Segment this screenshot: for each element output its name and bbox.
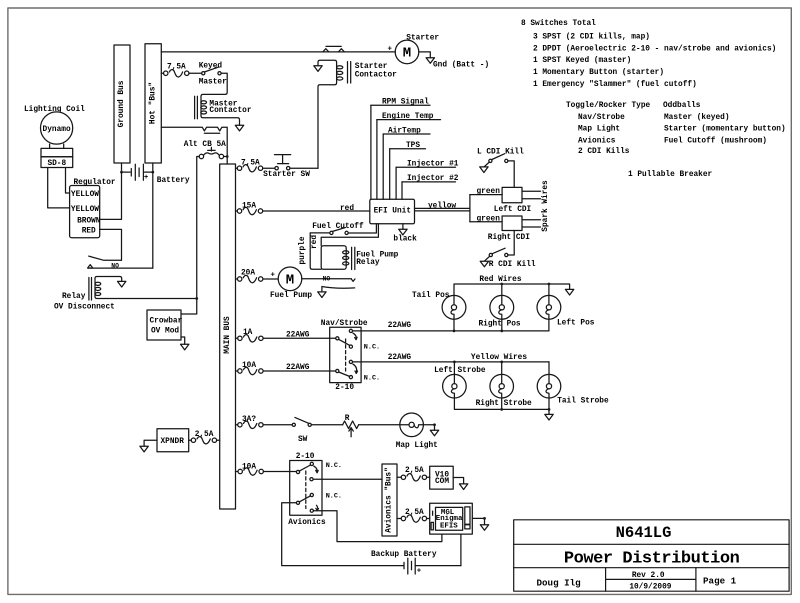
svg-text:SW: SW [298,436,308,444]
svg-text:N.C.: N.C. [326,493,342,501]
svg-text:Tail Pos: Tail Pos [412,292,450,300]
wire map lamp to ground [423,423,436,430]
wire avionics to bus [313,478,382,480]
ground starter contactor [314,66,322,72]
svg-text:red: red [311,235,319,249]
svg-text:1 Pullable Breaker: 1 Pullable Breaker [628,171,713,179]
notes pullable breaker [628,171,713,179]
svg-text:Page 1: Page 1 [703,576,737,587]
ground XPNDR [140,446,148,452]
svg-text:Engine Temp: Engine Temp [382,113,434,121]
right CDI box [488,216,530,242]
wire pump to NO contact [302,276,352,283]
svg-text:Regulator: Regulator [74,179,116,187]
EFI sensor line Injector1 [396,161,459,200]
wire green upper [470,188,502,196]
ground master contactor [235,125,243,131]
svg-text:2-10: 2-10 [296,453,315,461]
EFI sensor line EngineTemp [377,113,441,199]
svg-text:M: M [286,273,294,289]
avionics pole1 common [296,465,310,474]
EFI sensor line AirTemp [383,127,430,199]
svg-text:Alt CB 5A: Alt CB 5A [184,141,226,149]
wire pos lamp feeds [454,319,549,331]
ground bus [114,45,130,163]
node battery minus [120,171,123,174]
title date [629,583,671,591]
title block frame [514,520,789,591]
svg-text:Right Strobe: Right Strobe [476,400,532,408]
stub main bus efi [236,210,238,212]
title author [537,577,581,588]
notes toggle rocker table [566,102,786,156]
svg-text:22AWG: 22AWG [388,354,412,362]
svg-text:Fuel Pump: Fuel Pump [270,292,312,300]
svg-text:Crowbar: Crowbar [150,317,183,325]
ground EFIS [480,525,488,531]
stub main bus strobe [236,370,238,372]
svg-text:BROWN: BROWN [77,218,101,226]
ground map light [430,430,438,436]
svg-text:Avionics: Avionics [288,519,326,527]
node pos lamp2 feed [500,330,503,333]
wire 10A to strobe switch [263,364,336,372]
wire SD-8 to regulator yellow2 [48,168,70,208]
ground fuel pump contact [318,292,326,298]
svg-text:AirTemp: AirTemp [388,127,421,135]
node strobe lamp2 feed [500,361,503,364]
svg-text:Master (keyed): Master (keyed) [664,114,730,122]
svg-text:N.C.: N.C. [326,462,342,470]
wire L kill to left CDI [508,161,514,188]
svg-text:2-10: 2-10 [335,384,354,392]
svg-text:2,5A: 2,5A [405,467,424,475]
wire keyed switch to contactor coil [201,73,240,125]
svg-text:Backup Battery: Backup Battery [371,551,437,559]
svg-text:Toggle/Rocker Type: Toggle/Rocker Type [566,102,651,110]
svg-text:SD-8: SD-8 [47,160,66,168]
svg-text:8 Switches Total: 8 Switches Total [521,20,596,28]
title page [703,576,737,587]
lamp left strobe [434,367,486,398]
stub main bus map [236,424,238,426]
svg-text:2 DPDT (Aeroelectric 2-10 - na: 2 DPDT (Aeroelectric 2-10 - nav/strobe a… [533,45,776,53]
wire hot bus to NO contact [152,163,154,268]
svg-text:10A: 10A [242,463,256,471]
battery label [157,177,190,185]
svg-text:3A?: 3A? [242,416,256,424]
svg-text:L CDI Kill: L CDI Kill [477,149,524,157]
svg-text:10A: 10A [242,362,256,370]
svg-text:black: black [393,236,417,244]
spark wires right CDI [522,220,541,227]
svg-text:EFI Unit: EFI Unit [374,208,411,216]
svg-text:green: green [477,215,501,223]
svg-text:TPS: TPS [406,142,420,150]
svg-text:Right Pos: Right Pos [479,321,521,329]
svg-text:Starter: Starter [406,35,439,43]
hot bus [145,44,161,163]
notes switches total [521,20,776,89]
regulator pin labels [71,191,101,235]
switch R CDI kill [489,248,536,269]
svg-text:7,5A: 7,5A [167,63,186,71]
starter motor M1 [388,35,440,64]
svg-text:7,5A: 7,5A [241,160,260,168]
wire 1A to nav switch [263,332,336,340]
wire fuse to keyed switch [189,72,202,74]
svg-text:Left CDI: Left CDI [494,206,532,214]
wire strobe out 22AWG [353,354,550,362]
node strobe rail 2 [500,408,503,411]
breaker Alt CB 5A [184,141,226,159]
XPNDR box [157,429,189,452]
svg-text:Injector #2: Injector #2 [407,175,459,183]
svg-text:R: R [345,415,350,423]
lamp tail pos [412,292,466,319]
wire 3A to SW [263,424,292,426]
svg-text:2 CDI Kills: 2 CDI Kills [578,148,630,156]
left CDI box [494,187,532,214]
svg-text:RPM Signal: RPM Signal [382,99,429,107]
nav pole throws [349,329,380,351]
wire fuse to starter button [263,167,275,169]
title rev [632,572,665,580]
switch starter momentary [263,155,310,180]
wire EFIS to ground [472,517,486,525]
nav strobe switch S1 box [321,320,368,392]
starter contactor heavy contacts [323,46,345,52]
wire brown to battery minus [100,163,122,219]
svg-text:yellow: yellow [428,202,456,210]
wire 15A to EFI red [263,205,370,213]
svg-text:YELLOW: YELLOW [71,206,99,214]
svg-text:Starter (momentary button): Starter (momentary button) [664,126,786,134]
avionics pole1 throws [310,462,342,481]
EFI sensor line TPS [390,142,426,199]
resistor R dimmer [343,415,359,437]
fuse 2.5A v10 [397,467,430,481]
fuel pump NO fixed contact [351,279,355,282]
wire EFI to relay coil [311,224,378,249]
svg-text:2,5A: 2,5A [195,431,214,439]
svg-text:EFIS: EFIS [440,523,458,531]
svg-text:Relay: Relay [62,293,86,301]
stub main bus starter [236,167,238,169]
battery B1 [122,164,153,182]
fuel pump relay label [356,252,398,268]
fuse 1A [238,329,263,342]
OV relay contact blade [89,256,122,260]
fuse 15A [237,203,262,215]
ground R CDI kill [480,256,490,267]
switch fuel cutoff [312,223,364,234]
spark wires left CDI [522,191,541,199]
wire red to OV relay contact [100,229,122,260]
svg-text:+: + [271,272,276,280]
svg-text:Red Wires: Red Wires [479,276,521,284]
svg-text:Avionics "Bus": Avionics "Bus" [386,467,394,533]
wire strobe lamp feeds [454,354,549,374]
svg-text:Fuel Cutoff: Fuel Cutoff [312,223,364,231]
wire pos ground rail red wires [454,276,570,295]
svg-text:22AWG: 22AWG [286,364,310,372]
MGL EFIS box [430,503,473,534]
lamp right pos [479,295,521,328]
avionics bus [382,464,397,536]
wire NO contact to battery plus [88,267,153,269]
lamp left pos [537,295,595,327]
svg-text:22AWG: 22AWG [388,322,412,330]
ground L CDI kill [480,162,490,172]
wire green lower [470,215,502,223]
svg-text:22AWG: 22AWG [286,332,310,340]
dynamo base box [41,148,73,156]
relay label [54,293,115,312]
node pos rail 2 [500,283,503,286]
svg-text:Relay: Relay [356,259,380,267]
svg-text:green: green [477,188,501,196]
node alt cb junction [226,155,229,158]
avionics pole2 throws [310,493,342,513]
node B-lead coil tap [195,297,198,300]
avionics switch S2 box [288,453,326,527]
EFI unit U3 [370,199,415,223]
svg-text:NO: NO [323,276,331,283]
lamp right strobe [476,374,532,407]
wire strobe bottom rail [454,398,549,414]
node strobe rail 3 [548,408,551,411]
stub main bus avionics [236,471,239,473]
switch keyed master [199,63,227,87]
svg-text:20A: 20A [241,270,255,278]
wire alt B-lead down [181,157,199,315]
svg-text:10/9/2009: 10/9/2009 [629,583,671,591]
svg-text:Nav/Strobe: Nav/Strobe [321,320,368,328]
svg-text:OV Mod: OV Mod [151,327,179,335]
svg-text:purple: purple [299,236,307,264]
fuse 7.5A master [164,63,189,77]
fuse 2.5A efis [397,509,430,522]
wire EFI to fuel cutoff [348,224,376,233]
svg-text:+: + [388,45,393,53]
wire 10A to avionics switch [263,471,296,473]
svg-text:Right CDI: Right CDI [488,234,530,242]
svg-text:1 SPST Keyed (master): 1 SPST Keyed (master) [533,57,631,65]
svg-text:Fuel Cutoff (mushroom): Fuel Cutoff (mushroom) [664,137,767,145]
wire EFIS to backup battery [415,534,461,566]
SD-8 box [41,157,73,169]
svg-text:Map Light: Map Light [396,442,438,450]
svg-text:1 Emergency "Slammer" (fuel cu: 1 Emergency "Slammer" (fuel cutoff) [533,81,697,89]
fuse 20A [238,270,263,283]
EFI ground pin black [393,224,417,244]
svg-text:Hot "Bus": Hot "Bus" [149,82,157,124]
svg-text:YELLOW: YELLOW [71,191,99,199]
svg-text:Map Light: Map Light [578,126,620,134]
node strobe lamp1 feed [453,361,456,364]
wire breaker to right node [224,156,228,158]
node pos lamp1 feed [453,330,456,333]
strobe pole common [336,369,350,376]
ground OV relay [118,281,126,287]
svg-text:2,5A: 2,5A [405,509,424,517]
svg-text:R CDI Kill: R CDI Kill [489,261,536,269]
starter contactor label [355,63,397,79]
svg-text:M: M [403,46,411,62]
svg-text:1 Momentary Button (starter): 1 Momentary Button (starter) [533,69,664,77]
svg-text:Ground Bus: Ground Bus [118,80,126,127]
regulator U2 [70,179,116,238]
svg-text:N.C.: N.C. [364,374,380,382]
svg-text:XPNDR: XPNDR [161,438,185,446]
svg-text:Lighting Coil: Lighting Coil [24,106,85,114]
svg-text:Spark Wires: Spark Wires [542,180,550,232]
lamp tail strobe [537,374,609,405]
ground crowbar [181,337,189,350]
wire nav out 22AWG [353,322,549,331]
wire resistor to map lamp [359,424,400,426]
wire V10 to ground [453,478,463,484]
wire button to contactor [290,167,318,169]
svg-text:MAIN BUS: MAIN BUS [224,316,232,354]
ground starter motor [426,58,489,70]
svg-text:Contactor: Contactor [209,107,251,115]
OV relay fixed contact [88,262,120,269]
svg-text:Tail Strobe: Tail Strobe [557,397,609,405]
wire fuel cutoff purple loop [299,233,330,269]
main bus [220,164,236,509]
svg-text:COM: COM [435,478,449,486]
svg-text:red: red [340,205,354,213]
svg-text:Oddballs: Oddballs [663,102,701,110]
fuse 10A strobe [238,362,263,375]
svg-text:RED: RED [82,228,96,236]
fuel pump relay K4 coil [321,246,355,270]
dynamo stubs [50,144,64,148]
wire SD-8 to regulator yellow1 [66,168,70,194]
svg-text:Left Strobe: Left Strobe [434,367,486,375]
svg-text:Avionics: Avionics [578,137,616,145]
title power distribution [564,550,740,569]
spark wires label [542,180,550,232]
ground V10 [459,484,467,490]
svg-text:+: + [417,568,421,576]
svg-text:Rev 2.0: Rev 2.0 [632,572,665,580]
starter contactor K3 coil [318,60,351,168]
OV relay K2 coil [89,277,197,301]
backup battery B2 [371,551,437,576]
svg-text:+: + [144,174,148,182]
wire hot bus to fuse F-master [161,72,163,74]
avionics pole2 common [296,496,310,505]
svg-text:Gnd (Batt -): Gnd (Batt -) [433,62,489,70]
switch map SW [292,417,311,444]
svg-text:N641LG: N641LG [616,524,672,542]
lighting coil label [24,106,85,114]
wire hot bus disconnect plugs [161,127,227,164]
fuel pump contact blade [322,287,355,292]
wire motor to ground [419,52,431,58]
fuel pump motor M2 [270,267,312,300]
wire XPNDR to ground [144,440,157,446]
svg-text:Dynamo: Dynamo [43,126,71,134]
fuse 3A? [238,416,263,429]
wire hot bus to starter motor [161,51,395,53]
strobe pole throws [349,360,380,382]
stub main bus pump [236,278,238,280]
svg-text:Power Distribution: Power Distribution [564,550,740,569]
V10 COM box [430,466,454,489]
svg-text:15A: 15A [242,203,256,211]
nav pole common [336,337,350,346]
svg-text:Starter: Starter [355,63,388,71]
dynamo D1 [41,112,73,144]
wire pole2 common to backup battery [282,503,404,566]
svg-text:Contactor: Contactor [355,71,397,79]
wire right CDI to R kill [508,231,514,256]
svg-text:Keyed: Keyed [199,63,223,71]
node battery plus [151,171,154,174]
crowbar OV module [147,310,183,340]
svg-text:3 SPST (2 CDI kills, map): 3 SPST (2 CDI kills, map) [533,34,650,42]
wire SW to resistor [311,424,342,426]
svg-text:Doug Ilg: Doug Ilg [537,577,581,588]
ground strobes [545,414,553,420]
lamp map light [396,413,438,450]
title N641LG [616,524,672,542]
fuse 10A avionics [238,463,263,475]
svg-text:Master: Master [199,78,227,86]
svg-text:Nav/Strobe: Nav/Strobe [578,114,625,122]
node pos rail 3 [548,283,551,286]
svg-text:OV Disconnect: OV Disconnect [54,304,115,312]
wire 20A to pump [263,272,278,280]
switch L CDI kill [477,149,524,163]
fuse 7.5A starter [237,160,262,172]
svg-text:Battery: Battery [157,177,190,185]
svg-text:Left Pos: Left Pos [557,320,595,328]
wire yellow pair [415,195,470,222]
EFI sensor line RPM [371,99,430,200]
ground pos lights [565,289,573,295]
svg-text:Injector #1: Injector #1 [407,161,459,169]
svg-text:Yellow Wires: Yellow Wires [471,354,527,362]
master contactor K1 coil [195,96,252,119]
svg-text:1A: 1A [243,329,253,337]
fuse 2.5A xpndr [189,431,220,444]
stub main bus nav [236,337,238,339]
wire pole2 throw to EFIS [313,511,442,542]
svg-text:N.C.: N.C. [364,343,380,351]
EFI sensor line Injector2 [402,175,459,199]
svg-text:Starter SW: Starter SW [263,171,310,179]
